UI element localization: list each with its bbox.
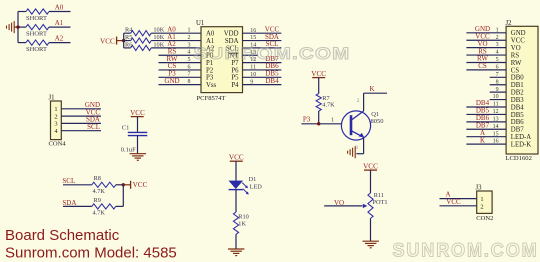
svg-text:16: 16 [493, 139, 499, 145]
node DB4 [265, 77, 279, 85]
pin 6 [188, 64, 191, 70]
wire [243, 54, 259, 56]
svg-text:2: 2 [188, 35, 191, 41]
node A0 [55, 3, 64, 11]
node K [480, 136, 485, 144]
svg-text:VCC: VCC [130, 109, 145, 117]
svg-text:9: 9 [250, 79, 253, 85]
svg-text:R10: R10 [238, 214, 249, 221]
svg-text:8050: 8050 [371, 118, 384, 125]
node A [480, 129, 485, 137]
potentiometer R11 POT1 [363, 192, 388, 218]
svg-text:R9: R9 [94, 197, 101, 204]
svg-text:LCD1602: LCD1602 [506, 155, 532, 162]
node VCC [86, 108, 101, 116]
wire [363, 93, 365, 111]
ground [7, 21, 19, 33]
pin 13 [250, 50, 256, 56]
pin 7 [188, 72, 191, 78]
svg-text:14: 14 [493, 124, 499, 130]
svg-text:SUNROM.COM: SUNROM.COM [194, 44, 351, 63]
svg-text:3: 3 [54, 121, 57, 128]
pin 6 [496, 65, 499, 71]
node SCL [62, 177, 75, 185]
svg-text:A0: A0 [206, 31, 215, 38]
node A1 [167, 33, 176, 41]
node SDA [86, 116, 100, 124]
node GND [475, 25, 490, 33]
pin 1 [331, 118, 334, 124]
svg-text:J1: J1 [49, 95, 55, 102]
wire [137, 136, 139, 154]
svg-text:VCC: VCC [363, 162, 378, 170]
wire [466, 143, 506, 145]
pin 13 [493, 116, 499, 122]
pin 8 [188, 79, 191, 85]
svg-text:RS: RS [511, 52, 520, 59]
svg-text:D1: D1 [249, 176, 257, 183]
svg-text:13: 13 [493, 116, 499, 122]
node DB7 [476, 121, 490, 129]
node DB5 [265, 70, 279, 78]
svg-text:SHORT: SHORT [26, 15, 47, 22]
node SCL [87, 123, 100, 131]
pin 15 [493, 131, 499, 137]
diode D1 LED [229, 176, 263, 195]
wire [324, 205, 362, 207]
pin 15 [250, 35, 256, 41]
wire [318, 78, 320, 94]
wire [466, 113, 506, 115]
svg-text:4.7K: 4.7K [93, 209, 106, 216]
svg-text:J2: J2 [506, 20, 513, 27]
svg-text:1: 1 [331, 118, 334, 124]
node A2 [55, 34, 64, 42]
wire [440, 205, 477, 207]
svg-text:1K: 1K [238, 221, 246, 228]
node DB6 [265, 62, 279, 70]
resistor R10 1K [233, 212, 248, 234]
svg-text:6: 6 [188, 64, 191, 70]
node DB7 [265, 55, 279, 63]
node VO [334, 199, 344, 207]
svg-text:A1: A1 [55, 19, 64, 27]
svg-text:A0: A0 [55, 3, 64, 11]
pin 2 [357, 98, 360, 104]
wire [364, 92, 387, 94]
svg-text:10: 10 [250, 72, 256, 78]
svg-text:10K: 10K [153, 41, 164, 48]
svg-text:12: 12 [493, 109, 499, 115]
pin 5 [188, 57, 191, 63]
node SCL [266, 40, 279, 48]
svg-text:SHORT: SHORT [26, 30, 47, 37]
pin 10 [250, 72, 256, 78]
svg-text:11: 11 [493, 102, 499, 108]
pin 14 [493, 124, 499, 130]
svg-text:DB4: DB4 [265, 77, 279, 85]
svg-text:8: 8 [496, 79, 499, 85]
svg-text:LED: LED [250, 183, 263, 190]
svg-text:0.1uF: 0.1uF [121, 146, 136, 153]
wire [235, 161, 237, 181]
wire [490, 91, 506, 93]
svg-text:C1: C1 [122, 124, 130, 131]
wire [159, 76, 202, 78]
svg-text:VCC: VCC [133, 181, 148, 189]
wire [159, 62, 202, 64]
node GND [85, 101, 100, 109]
ground [228, 249, 244, 256]
pin 3 [496, 42, 499, 48]
wire [243, 32, 282, 34]
svg-text:U1: U1 [196, 20, 204, 27]
svg-text:CON2: CON2 [476, 215, 493, 222]
watermark SUNROM.COM bottom right [393, 240, 539, 262]
power VCC [363, 162, 378, 170]
svg-text:4.7K: 4.7K [322, 102, 335, 109]
svg-text:K: K [480, 136, 485, 144]
power VCC [100, 37, 124, 46]
svg-text:DB6: DB6 [511, 119, 524, 126]
node K [369, 85, 374, 93]
svg-text:15: 15 [250, 35, 256, 41]
title Board Schematic [5, 227, 120, 244]
svg-text:DB3: DB3 [511, 97, 524, 104]
power VCC [123, 181, 147, 189]
wire [123, 33, 125, 48]
svg-text:VCC: VCC [311, 70, 326, 78]
svg-text:R11: R11 [374, 192, 384, 199]
svg-text:VCC: VCC [446, 198, 461, 206]
pin 4 [496, 50, 499, 56]
node SDA [62, 199, 76, 207]
wire [243, 84, 282, 86]
svg-text:DB1: DB1 [511, 82, 524, 89]
node GND [164, 77, 179, 85]
svg-text:7: 7 [188, 72, 191, 78]
connector J3 CON2 [476, 185, 494, 223]
svg-text:10K: 10K [153, 27, 164, 34]
ground [130, 154, 146, 161]
wire [235, 234, 237, 249]
svg-text:DB2: DB2 [511, 90, 524, 97]
svg-text:PCF8574T: PCF8574T [197, 95, 226, 102]
svg-text:R6: R6 [125, 41, 132, 48]
node RW [167, 55, 178, 63]
svg-text:P4: P4 [231, 82, 239, 89]
svg-text:1: 1 [54, 106, 57, 113]
wire [159, 54, 202, 56]
node junction R8-R9-VCC [122, 183, 125, 186]
pin 9 [250, 79, 253, 85]
svg-text:1: 1 [496, 27, 499, 33]
node junction VCC-R5 [122, 39, 125, 42]
svg-text:SDA: SDA [62, 199, 76, 207]
pin 7 [496, 72, 499, 78]
svg-text:16: 16 [250, 28, 256, 34]
watermark SUNROM.COM center [194, 44, 351, 63]
power VCC [229, 153, 244, 161]
pin 10 [493, 94, 499, 100]
svg-text:P2: P2 [206, 67, 214, 74]
svg-text:RW: RW [511, 60, 522, 67]
resistor R4 10K [124, 27, 201, 36]
svg-text:DB7: DB7 [511, 127, 524, 134]
svg-text:P3: P3 [303, 116, 311, 124]
svg-text:R4: R4 [125, 27, 133, 34]
node RW [477, 55, 488, 63]
resistor R7 4.7K [316, 94, 335, 111]
wire [466, 136, 506, 138]
svg-text:SUNROM.COM: SUNROM.COM [393, 240, 539, 262]
node CS [168, 62, 177, 70]
wire [61, 130, 101, 132]
svg-text:1: 1 [480, 196, 483, 203]
svg-text:R5: R5 [125, 34, 132, 41]
svg-text:LED-K: LED-K [511, 142, 531, 149]
pin 14 [250, 43, 256, 49]
svg-text:2: 2 [357, 98, 360, 104]
svg-text:SCL: SCL [62, 177, 75, 185]
wire [466, 106, 506, 108]
capacitor C1 0.1uF [121, 124, 148, 153]
svg-text:SHORT: SHORT [26, 46, 47, 53]
svg-text:POT1: POT1 [373, 199, 388, 206]
wire [466, 47, 506, 49]
svg-text:Board Schematic: Board Schematic [5, 227, 120, 244]
power VCC [311, 70, 326, 78]
node VCC [475, 32, 490, 40]
resistor R6 10K [124, 41, 201, 50]
svg-text:4.7K: 4.7K [93, 188, 106, 195]
svg-text:10K: 10K [153, 34, 164, 41]
title Sunrom.com Model: 4585 [5, 245, 177, 262]
node A [445, 191, 450, 199]
pin 4 [188, 50, 191, 56]
node VCC [446, 198, 461, 206]
wire [466, 54, 506, 56]
wire [243, 47, 282, 49]
wire [243, 69, 282, 71]
node VCC [265, 25, 280, 33]
svg-text:P3: P3 [206, 75, 214, 82]
wire [159, 69, 202, 71]
wire [61, 115, 101, 117]
node A1 [55, 19, 64, 27]
wire [466, 69, 506, 71]
svg-text:5: 5 [496, 57, 499, 63]
svg-text:Sunrom.com Model: 4585: Sunrom.com Model: 4585 [5, 245, 177, 262]
svg-text:VDD: VDD [224, 31, 239, 38]
pin 2 [496, 35, 499, 41]
wire [370, 218, 372, 241]
svg-text:5: 5 [188, 57, 191, 63]
pin 12 [493, 109, 499, 115]
pin 11 [493, 102, 499, 108]
svg-text:DB0: DB0 [511, 75, 524, 82]
svg-text:SCL: SCL [87, 123, 100, 131]
ground [363, 241, 379, 248]
wire [61, 122, 101, 124]
pin 1 [496, 27, 499, 33]
resistor R8 4.7K [63, 175, 123, 195]
svg-text:8: 8 [188, 79, 191, 85]
svg-text:P5: P5 [231, 75, 239, 82]
resistor SHORT 2 [18, 25, 71, 38]
pin 11 [250, 65, 256, 71]
svg-text:DB5: DB5 [511, 112, 524, 119]
svg-text:CS: CS [511, 67, 520, 74]
svg-text:CS: CS [478, 62, 487, 70]
svg-text:VCC: VCC [229, 153, 244, 161]
wire [466, 128, 506, 130]
node RS [478, 47, 487, 55]
svg-text:K: K [369, 85, 374, 93]
svg-text:2: 2 [496, 35, 499, 41]
svg-text:4: 4 [496, 50, 499, 56]
node DB5 [476, 107, 490, 115]
wire [243, 62, 282, 64]
wire [440, 198, 477, 200]
svg-text:A2: A2 [55, 34, 64, 42]
svg-text:1: 1 [188, 28, 191, 34]
power VCC [130, 109, 145, 117]
svg-text:LED-A: LED-A [511, 134, 531, 141]
svg-text:P6: P6 [231, 67, 239, 74]
svg-text:VCC: VCC [100, 38, 115, 46]
resistor SHORT 1 [18, 9, 71, 22]
svg-text:10: 10 [493, 94, 499, 100]
node junction R7-base [317, 122, 320, 125]
pin 9 [496, 87, 499, 93]
wire [490, 76, 506, 78]
wire [466, 121, 506, 123]
connector J2 LCD1602 [506, 20, 539, 162]
node A2 [167, 40, 176, 48]
resistor R9 4.7K [63, 197, 123, 217]
ground [348, 146, 356, 158]
svg-text:VO: VO [511, 45, 521, 52]
svg-text:2: 2 [480, 203, 483, 210]
wire [137, 117, 139, 132]
wire [122, 185, 124, 207]
svg-text:3: 3 [188, 42, 191, 48]
wire [17, 12, 19, 43]
wire [243, 40, 282, 42]
svg-text:GND: GND [164, 77, 179, 85]
pin 16 [493, 139, 499, 145]
svg-text:J3: J3 [476, 185, 483, 192]
connector J1 CON4 [49, 95, 67, 148]
pin 1 [188, 28, 191, 34]
svg-text:VCC: VCC [511, 38, 525, 45]
svg-text:4: 4 [188, 50, 191, 56]
wire [301, 123, 341, 125]
wire [466, 61, 506, 63]
svg-text:R8: R8 [94, 175, 101, 182]
node P3 [168, 70, 176, 78]
op-amp U1 PCF8574T [196, 20, 243, 102]
node CS [478, 62, 487, 70]
pin 16 [250, 28, 256, 34]
wire [356, 138, 363, 154]
svg-text:Vss: Vss [206, 82, 217, 89]
node RS [168, 47, 177, 55]
svg-text:6: 6 [496, 65, 499, 71]
pin 3 [188, 42, 191, 48]
node DB6 [476, 114, 490, 122]
wire [243, 76, 282, 78]
wire [370, 170, 372, 193]
pin 5 [496, 57, 499, 63]
wire [318, 111, 320, 124]
pin 8 [496, 79, 499, 85]
pin 3 [355, 145, 358, 151]
node DB4 [476, 99, 490, 107]
node VO [477, 40, 487, 48]
wire [490, 84, 506, 86]
wire [466, 39, 506, 41]
wire [490, 99, 506, 101]
pin 2 [188, 35, 191, 41]
wire [61, 108, 101, 110]
svg-text:2: 2 [54, 113, 57, 120]
resistor SHORT 3 [18, 40, 71, 53]
resistor R5 10K [124, 34, 201, 43]
svg-text:3: 3 [496, 42, 499, 48]
svg-text:GND: GND [511, 30, 526, 37]
svg-text:15: 15 [493, 131, 499, 137]
svg-text:CON4: CON4 [49, 140, 67, 147]
svg-text:9: 9 [496, 87, 499, 93]
node junction ground bus [16, 25, 19, 28]
wire [466, 32, 506, 34]
wire [159, 84, 202, 86]
node SDA [265, 33, 279, 41]
node A0 [167, 25, 176, 33]
svg-text:11: 11 [250, 65, 256, 71]
wire [235, 190, 237, 212]
transistor Q1 8050 [341, 111, 383, 140]
pin 12 [250, 57, 256, 63]
node P3 [303, 116, 311, 124]
svg-text:DB4: DB4 [511, 104, 524, 111]
svg-text:7: 7 [496, 72, 499, 78]
